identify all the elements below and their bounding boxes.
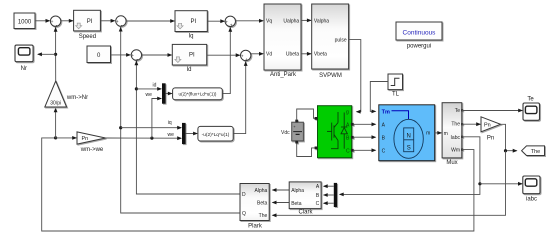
svg-text:Vdc: Vdc — [281, 130, 290, 136]
svg-text:-u(2)*Lq*u(1): -u(2)*Lq*u(1) — [202, 132, 230, 138]
svg-text:C: C — [382, 149, 386, 155]
PI controller Speed — [74, 10, 101, 31]
svg-text:Pn: Pn — [487, 136, 494, 142]
svg-text:we: we — [168, 132, 175, 138]
svg-text:Valpha: Valpha — [314, 18, 329, 24]
Mux bus selector — [442, 103, 463, 158]
svg-text:+: + — [241, 54, 244, 59]
svg-text:The: The — [451, 122, 460, 128]
svg-text:iabc: iabc — [526, 197, 537, 203]
wire demux to Clark B — [323, 193, 334, 197]
wire mux2 to Fcn2 — [186, 132, 198, 136]
gain 30/pi (pointing up) — [45, 81, 67, 107]
wire Mux Te to scope Te — [462, 109, 523, 113]
svg-text:Te: Te — [527, 97, 534, 103]
svg-text:Vd: Vd — [266, 52, 272, 58]
svg-text:C: C — [346, 148, 350, 154]
svg-text:+: + — [225, 20, 228, 25]
PMSM machine block — [379, 105, 435, 161]
wire Fcn1 up to sum3 — [222, 27, 232, 94]
svg-text:The: The — [259, 213, 268, 219]
wire Clark Beta to Park Beta — [272, 201, 290, 205]
svg-text:Speed: Speed — [79, 34, 96, 40]
wire mux1 to Fcn1 — [166, 92, 173, 96]
sum block sum4 (id error) — [131, 50, 141, 63]
wire inverter A to motor A — [354, 122, 377, 126]
mux1 (id,we) — [162, 83, 166, 103]
svg-text:SVPWM: SVPWM — [319, 73, 342, 79]
svg-text:+: + — [51, 20, 54, 25]
PI controller Iq — [175, 11, 207, 32]
svg-text:The: The — [531, 149, 540, 155]
svg-text:D: D — [242, 192, 246, 198]
inverter bridge (green Universal Bridge) — [315, 106, 354, 158]
svg-text:Continuous: Continuous — [403, 29, 437, 36]
wire wm to gain Pn left — [56, 136, 77, 140]
svg-text:Ualpha: Ualpha — [283, 18, 299, 24]
sum block sum5 (Vd + decoupling) — [241, 50, 251, 63]
svg-text:Beta: Beta — [291, 201, 302, 207]
constant block 0 — [87, 46, 111, 63]
svg-text:Iq: Iq — [188, 33, 193, 39]
svg-text:Nr: Nr — [21, 66, 27, 72]
svg-text:Vbeta: Vbeta — [314, 51, 327, 57]
svg-text:wm->Nr: wm->Nr — [66, 95, 88, 101]
svg-text:Anti_Park: Anti_Park — [270, 72, 297, 78]
svg-text:g: g — [346, 110, 349, 116]
wire Mux The to gain Pn — [462, 122, 481, 126]
wire theta down to Park The — [272, 151, 506, 218]
wire iq branch to mux2 — [121, 126, 182, 130]
svg-text:Q: Q — [242, 211, 246, 217]
wire PI Speed to sum2 — [100, 19, 115, 23]
wire Fcn2 up to sum5 — [233, 61, 247, 134]
svg-text:PI: PI — [191, 19, 197, 25]
sum block sum1 (speed error) — [50, 16, 60, 29]
wire 30/pi up to sum1 and scope Nr — [54, 27, 58, 81]
svg-text:Alpha: Alpha — [255, 188, 268, 194]
wire motor m to Mux — [435, 131, 442, 135]
svg-text:Pn: Pn — [82, 136, 89, 142]
subsystem SVPWM — [312, 4, 349, 69]
wire Vdc minus to inverter — [297, 144, 315, 157]
svg-text:Plark: Plark — [248, 223, 263, 229]
gain Pn left (wm->we) — [77, 132, 106, 144]
scope iabc — [523, 176, 540, 194]
svg-text:powergui: powergui — [407, 44, 431, 50]
svg-text:iq: iq — [168, 120, 172, 126]
svg-text:+: + — [131, 54, 134, 59]
svg-text:S: S — [407, 146, 411, 152]
wire wm up to gain 30/pi — [54, 108, 58, 138]
sum block sum2 (iq error) — [116, 16, 126, 29]
wire inverter C to motor C — [354, 148, 377, 152]
wire id branch to mux1 — [136, 87, 162, 91]
wire Pn to goto The and down to Park — [501, 124, 518, 152]
wire Park D feedback (id) up to sum4 — [135, 61, 241, 195]
svg-text:Wm: Wm — [451, 148, 460, 154]
scope Nr (flipped) — [15, 45, 33, 62]
svg-text:wm->we: wm->we — [80, 147, 104, 153]
Fcn block u(2)*(flux+Ld*u(1)) — [173, 88, 223, 100]
svg-text:1000: 1000 — [18, 19, 32, 25]
powergui block Continuous — [396, 22, 442, 40]
wire Iabc branch to scope iabc — [480, 182, 523, 186]
svg-text:Beta: Beta — [257, 201, 268, 207]
svg-text:Iabc: Iabc — [451, 135, 461, 141]
Park transform block — [240, 184, 269, 221]
svg-text:TL: TL — [392, 92, 400, 98]
wire 1000 to sum1 — [35, 19, 50, 23]
step block TL (flipped) — [388, 74, 403, 90]
gain Pn (right) — [481, 117, 501, 132]
wire Ualpha to Valpha — [301, 19, 312, 23]
constant block 1000 — [14, 13, 35, 29]
svg-text:u(2)*(flux+Ld*u(1)): u(2)*(flux+Ld*u(1)) — [179, 92, 217, 97]
wire 0 to sum4 — [111, 53, 131, 57]
svg-text:Vq: Vq — [266, 19, 272, 25]
svg-text:m: m — [426, 131, 430, 137]
svg-text:PI: PI — [189, 53, 195, 59]
Fcn block -u(2)*Lq*u(1) — [198, 126, 233, 141]
wire branch to scope Nr — [37, 52, 56, 56]
wire Clark Alpha to Park Alpha — [272, 188, 290, 192]
junction we — [150, 137, 153, 140]
svg-text:Pn: Pn — [484, 122, 491, 128]
subsystem Anti_Park — [264, 4, 301, 70]
wire TL to motor Tm — [370, 82, 388, 114]
wire pulse to inverter g — [349, 40, 361, 114]
goto tag The — [522, 146, 545, 156]
wire we branch up to mux1 — [152, 97, 162, 139]
svg-text:N: N — [407, 133, 411, 139]
wire sum3 to Anti_Park Vq — [236, 19, 264, 23]
svg-text:we: we — [146, 92, 153, 98]
wire demux to Clark A — [323, 184, 334, 188]
junction wm — [54, 136, 57, 139]
wire sum1 to PI Speed — [61, 19, 74, 23]
wire Mux Wm feedback to bottom left — [42, 138, 474, 231]
wire we line to mux2 — [106, 136, 183, 140]
wire sum4 to PI Id — [142, 53, 173, 57]
svg-text:m: m — [444, 131, 448, 137]
mux2 (iq,we) — [182, 123, 186, 144]
svg-text:30/pi: 30/pi — [50, 101, 61, 107]
svg-text:pulse: pulse — [335, 38, 347, 44]
svg-text:Alpha: Alpha — [291, 188, 304, 194]
demux (3 phases) — [334, 183, 337, 207]
svg-text:+: + — [116, 20, 119, 25]
wire Park Q feedback (iq) up to sum2 — [119, 27, 240, 213]
svg-text:PI: PI — [87, 19, 93, 25]
wire Ubeta to Vbeta — [301, 52, 312, 56]
PI controller Id — [172, 44, 206, 65]
svg-text:Tm: Tm — [382, 110, 390, 116]
svg-text:id: id — [153, 82, 157, 88]
wire Vdc plus to inverter — [297, 109, 315, 120]
svg-text:Mux: Mux — [446, 160, 457, 166]
wire PI Id to sum5 — [207, 53, 241, 57]
wire sum5 to Anti_Park Vd — [251, 52, 264, 56]
sum block sum3 (Vq + decoupling) — [225, 16, 235, 29]
wire sum2 to PI Iq — [126, 19, 175, 23]
Clark transform block — [289, 182, 321, 209]
svg-text:Te: Te — [455, 108, 461, 114]
wire inverter B to motor B — [354, 135, 377, 139]
svg-text:Ubeta: Ubeta — [286, 51, 300, 57]
wire Mux Iabc down — [339, 137, 482, 196]
DC voltage source Vdc — [292, 120, 304, 144]
svg-text:Clark: Clark — [298, 210, 313, 216]
svg-text:C: C — [316, 201, 320, 207]
wire PI Iq to sum3 — [207, 19, 225, 23]
svg-text:Id: Id — [186, 67, 191, 73]
wire demux to Clark C — [323, 201, 334, 205]
